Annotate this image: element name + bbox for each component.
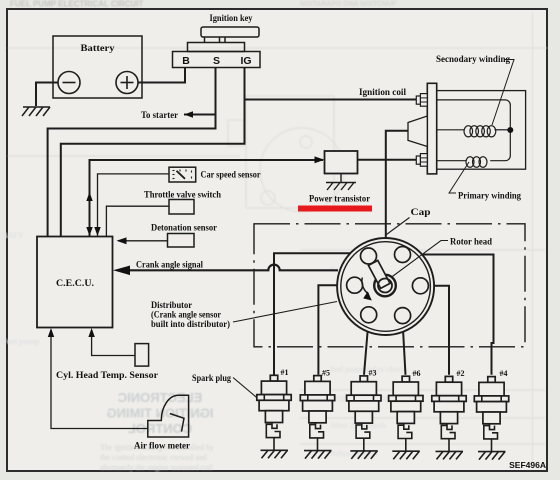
svg-text:SEF496A: SEF496A	[509, 460, 546, 470]
svg-text:Crank angle signal: Crank angle signal	[136, 260, 203, 271]
svg-text:#3: #3	[369, 369, 377, 378]
svg-text:built into distributor): built into distributor)	[151, 319, 230, 330]
svg-text:NOITARAPO DNA NOITCNUF: NOITARAPO DNA NOITCNUF	[300, 1, 397, 8]
svg-text:Battery: Battery	[81, 43, 115, 54]
svg-text:B: B	[182, 55, 190, 67]
svg-text:#2: #2	[457, 369, 465, 378]
svg-text:Cap: Cap	[411, 207, 431, 218]
svg-text:the control electronic crewed: the control electronic crewed and	[100, 453, 207, 462]
svg-text:To starter: To starter	[141, 110, 179, 121]
svg-text:IGNITION TIMING: IGNITION TIMING	[107, 406, 214, 421]
svg-text:Cyl. Head Temp. Sensor: Cyl. Head Temp. Sensor	[56, 370, 159, 381]
svg-text:#5: #5	[322, 368, 330, 377]
svg-text:Primary winding: Primary winding	[458, 191, 521, 202]
svg-text:Ignition key: Ignition key	[210, 13, 253, 24]
svg-text:Car speed sensor: Car speed sensor	[201, 170, 262, 181]
svg-text:#4: #4	[500, 369, 508, 378]
svg-text:S: S	[213, 55, 220, 67]
svg-text:Spark plug: Spark plug	[192, 373, 231, 384]
svg-text:#6: #6	[413, 369, 421, 378]
svg-text:Power transistor: Power transistor	[309, 194, 371, 205]
svg-text:BATY: BATY	[2, 231, 24, 240]
svg-text:alternately the engine mounted: alternately the engine mounted coil	[100, 463, 214, 472]
svg-text:C.E.C.U.: C.E.C.U.	[56, 278, 94, 289]
svg-text:FUEL PUMP ELECTRICAL CIRCUIT: FUEL PUMP ELECTRICAL CIRCUIT	[10, 0, 143, 9]
svg-text:Air flow meter: Air flow meter	[134, 441, 191, 452]
svg-text:Secnodary winding: Secnodary winding	[436, 54, 510, 65]
svg-text:Ignition coil: Ignition coil	[359, 87, 406, 98]
svg-text:#1: #1	[281, 368, 289, 377]
svg-text:ELECTRONIC: ELECTRONIC	[117, 390, 202, 405]
svg-text:Fuel pump: Fuel pump	[2, 337, 40, 346]
svg-text:IG: IG	[240, 55, 251, 67]
svg-text:Rotor head: Rotor head	[450, 237, 493, 248]
svg-text:Detonation sensor: Detonation sensor	[151, 223, 218, 234]
